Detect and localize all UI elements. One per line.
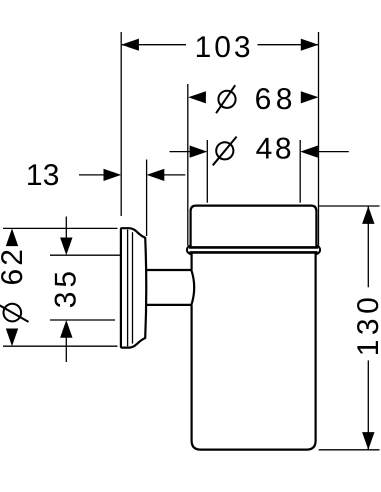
extension line 130 top — [319, 205, 380, 207]
rim lip right — [316, 246, 320, 255]
escutcheon plate outline — [121, 228, 146, 347]
arrow 48 left — [190, 146, 208, 158]
svg-text:62: 62 — [0, 246, 29, 285]
extension line left of 103 (wall line) — [120, 32, 122, 216]
rim lip left — [187, 246, 191, 255]
extension line 35 bottom — [50, 319, 115, 321]
arrow 103 left — [121, 39, 139, 51]
extension line 35 top — [50, 254, 120, 256]
extension line right of 103/68 — [318, 32, 320, 246]
leader 13 right — [163, 174, 186, 176]
arrow 13 right — [147, 169, 165, 181]
holder ring bulge — [191, 270, 194, 305]
tumbler body — [192, 254, 316, 450]
rim band top line — [189, 246, 318, 249]
extension line 62 bottom — [3, 345, 118, 347]
arrow 68 left — [188, 91, 206, 103]
dimension line 103 — [121, 44, 186, 46]
plate inner line 2 — [132, 232, 134, 343]
extension line 62 top — [3, 227, 118, 229]
diameter symbol 62 (rotated) — [0, 304, 29, 322]
arrow 130 bottom — [362, 432, 374, 450]
diameter symbol 48 — [213, 137, 237, 166]
tumbler rim outline — [191, 206, 317, 247]
arrow 103 right — [301, 39, 319, 51]
extension line right of 13 (escutcheon front) — [146, 160, 148, 237]
leader 48 right — [317, 151, 349, 153]
svg-text:130: 130 — [352, 293, 381, 357]
extension line right of 48 — [299, 140, 301, 203]
holder arm bottom — [146, 304, 192, 306]
arrow 35 top — [60, 238, 72, 256]
svg-text:48: 48 — [256, 133, 295, 166]
svg-text:103: 103 — [195, 31, 254, 64]
svg-text:13: 13 — [26, 159, 60, 192]
arrow 62 bottom — [6, 329, 18, 347]
diameter symbol 68 — [216, 85, 235, 113]
extension line left of 68 — [187, 84, 189, 246]
svg-text:35: 35 — [50, 267, 83, 308]
plate inner line 1 — [127, 230, 129, 347]
tail 35 bottom — [65, 337, 67, 363]
leader 48 left — [170, 151, 192, 153]
leader 13 left — [79, 174, 105, 176]
arrow 35 bottom — [60, 320, 72, 338]
arrow 130 top — [362, 206, 374, 224]
holder arm top — [146, 269, 192, 271]
arrow 62 top — [6, 228, 18, 246]
rim band bottom line — [190, 251, 318, 254]
extension line 130 bottom — [319, 449, 380, 451]
arrow 48 right — [300, 146, 318, 158]
dimension line 130 — [367, 206, 369, 287]
arrow 68 right — [301, 91, 319, 103]
arrow 13 left — [104, 169, 122, 181]
extension line left of 48 — [206, 140, 208, 203]
svg-text:68: 68 — [255, 83, 297, 116]
tail 35 top — [65, 217, 67, 240]
